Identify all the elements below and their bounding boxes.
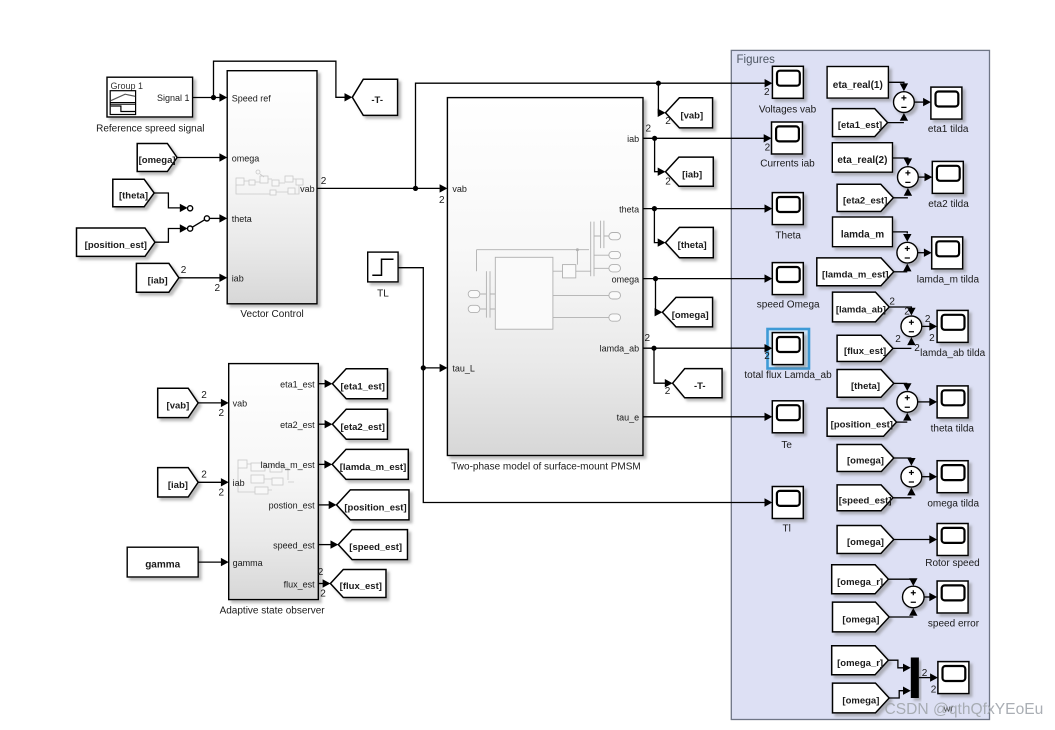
svg-text:theta: theta: [619, 204, 639, 214]
svg-text:2: 2: [218, 408, 224, 419]
svg-text:Signal 1: Signal 1: [157, 93, 190, 103]
svg-text:iab: iab: [232, 274, 244, 284]
svg-text:2: 2: [665, 176, 671, 187]
svg-text:[iab]: [iab]: [682, 169, 702, 180]
svg-text:lamda_m: lamda_m: [841, 229, 884, 240]
svg-text:eta_real(2): eta_real(2): [837, 155, 887, 166]
svg-text:2: 2: [321, 176, 327, 187]
svg-text:2: 2: [765, 142, 771, 153]
svg-text:gamma: gamma: [233, 558, 263, 568]
svg-text:[omega]: [omega]: [847, 456, 884, 467]
svg-text:omega tilda: omega tilda: [927, 498, 979, 509]
svg-text:lamda_m_est: lamda_m_est: [261, 460, 316, 470]
svg-text:2: 2: [922, 668, 928, 679]
svg-text:omega: omega: [612, 274, 640, 284]
svg-text:lamda_ab: lamda_ab: [600, 344, 640, 354]
svg-text:2: 2: [646, 124, 652, 135]
svg-text:vab: vab: [233, 399, 248, 409]
svg-text:Adaptive state observer: Adaptive state observer: [220, 606, 326, 617]
svg-text:[lamda_m_est]: [lamda_m_est]: [340, 462, 407, 473]
svg-text:[omega_r]: [omega_r]: [837, 577, 883, 588]
svg-text:Tl: Tl: [783, 524, 791, 535]
svg-text:2: 2: [889, 296, 895, 307]
svg-text:[omega]: [omega]: [672, 310, 709, 321]
svg-text:speed_est: speed_est: [273, 540, 315, 550]
svg-text:[iab]: [iab]: [148, 275, 168, 286]
svg-text:Figures: Figures: [737, 54, 776, 66]
svg-text:[omega]: [omega]: [842, 696, 879, 707]
svg-text:Theta: Theta: [775, 231, 801, 242]
svg-text:2: 2: [320, 588, 326, 599]
svg-text:2: 2: [764, 87, 770, 98]
svg-text:2: 2: [665, 386, 671, 397]
svg-text:2: 2: [764, 351, 770, 362]
svg-text:[eta1_est]: [eta1_est]: [838, 120, 882, 131]
svg-text:eta2 tilda: eta2 tilda: [928, 199, 969, 210]
svg-text:2: 2: [665, 116, 671, 127]
svg-text:Reference spreed signal: Reference spreed signal: [96, 123, 204, 134]
svg-text:Rotor speed: Rotor speed: [925, 558, 979, 569]
svg-text:[omega]: [omega]: [139, 155, 176, 166]
svg-text:2: 2: [439, 195, 445, 206]
svg-text:speed error: speed error: [928, 618, 980, 629]
svg-text:eta_real(1): eta_real(1): [833, 80, 883, 91]
svg-text:2: 2: [181, 265, 187, 276]
svg-text:eta2_est: eta2_est: [280, 420, 315, 430]
svg-text:theta tilda: theta tilda: [931, 424, 975, 435]
svg-text:eta1 tilda: eta1 tilda: [928, 124, 969, 135]
svg-text:Group 1: Group 1: [111, 81, 144, 91]
svg-text:[speed_est]: [speed_est]: [349, 542, 402, 553]
svg-text:[lamda_m_est]: [lamda_m_est]: [822, 269, 889, 280]
svg-text:[position_est]: [position_est]: [831, 420, 893, 431]
svg-text:eta1_est: eta1_est: [280, 380, 315, 390]
svg-text:[theta]: [theta]: [119, 191, 148, 202]
svg-text:iab: iab: [627, 134, 639, 144]
svg-text:Two-phase model of surface-mou: Two-phase model of surface-mount PMSM: [451, 462, 641, 473]
svg-text:[vab]: [vab]: [680, 110, 703, 121]
svg-text:lamda_ab tilda: lamda_ab tilda: [920, 348, 985, 359]
svg-text:2: 2: [644, 333, 650, 344]
svg-text:[theta]: [theta]: [851, 381, 880, 392]
svg-text:tau_L: tau_L: [452, 364, 475, 374]
svg-text:2: 2: [895, 334, 901, 345]
svg-text:[eta2_est]: [eta2_est]: [843, 195, 887, 206]
svg-text:Speed ref: Speed ref: [232, 93, 272, 103]
svg-text:total flux Lamda_ab: total flux Lamda_ab: [744, 370, 832, 381]
svg-text:speed Omega: speed Omega: [757, 300, 820, 311]
svg-text:[theta]: [theta]: [678, 240, 707, 251]
svg-text:2: 2: [914, 343, 920, 354]
svg-text:iab: iab: [233, 478, 245, 488]
svg-text:[eta2_est]: [eta2_est]: [341, 422, 385, 433]
svg-text:2: 2: [925, 314, 931, 325]
svg-text:flux_est: flux_est: [284, 579, 316, 589]
svg-text:[vab]: [vab]: [167, 401, 190, 412]
svg-text:2: 2: [218, 488, 224, 499]
svg-text:Vector Control: Vector Control: [240, 309, 303, 320]
svg-text:2: 2: [201, 390, 207, 401]
svg-text:lamda_m tilda: lamda_m tilda: [917, 274, 980, 285]
svg-text:tau_e: tau_e: [617, 413, 640, 423]
svg-text:postion_est: postion_est: [269, 501, 316, 511]
svg-text:2: 2: [929, 333, 935, 344]
svg-text:theta: theta: [232, 214, 252, 224]
svg-text:TL: TL: [377, 288, 389, 299]
svg-text:2: 2: [214, 283, 220, 294]
svg-text:omega: omega: [232, 153, 260, 163]
svg-text:gamma: gamma: [145, 560, 180, 571]
svg-text:[flux_est]: [flux_est]: [844, 346, 886, 357]
svg-text:vab: vab: [452, 184, 467, 194]
svg-text:[position_est]: [position_est]: [344, 503, 406, 514]
svg-text:2: 2: [931, 685, 937, 696]
svg-text:Voltages vab: Voltages vab: [759, 104, 817, 115]
svg-text:-T-: -T-: [694, 381, 706, 392]
svg-text:[lamda_ab]: [lamda_ab]: [836, 305, 886, 316]
svg-text:[omega]: [omega]: [842, 615, 879, 626]
svg-text:[iab]: [iab]: [168, 480, 188, 491]
svg-text:Currents iab: Currents iab: [760, 159, 815, 170]
svg-text:[position_est]: [position_est]: [85, 240, 147, 251]
svg-text:2: 2: [904, 307, 910, 318]
svg-text:Te: Te: [781, 440, 792, 451]
svg-text:CSDN @qthQfxYEoEu: CSDN @qthQfxYEoEu: [885, 701, 1044, 718]
svg-text:2: 2: [318, 567, 324, 578]
svg-text:[speed_est]: [speed_est]: [839, 495, 892, 506]
svg-text:[omega]: [omega]: [847, 537, 884, 548]
svg-text:-T-: -T-: [371, 95, 383, 106]
svg-text:vab: vab: [300, 184, 315, 194]
svg-text:2: 2: [201, 470, 207, 481]
svg-text:[omega_r]: [omega_r]: [837, 658, 883, 669]
svg-text:[flux_est]: [flux_est]: [340, 581, 382, 592]
svg-text:[eta1_est]: [eta1_est]: [341, 381, 385, 392]
